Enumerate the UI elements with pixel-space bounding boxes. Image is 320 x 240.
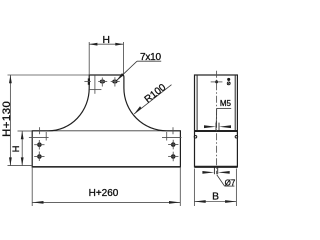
- side view outline: [195, 75, 238, 167]
- corner bump right: [235, 135, 238, 138]
- base top edge (side view, thick): [195, 130, 238, 132]
- dimension H (left): [18, 130, 33, 132]
- slot (edge-on) at left flange: [88, 78, 90, 84]
- base bottom edge (side view, thick): [195, 166, 238, 168]
- base holes left: vertical centerline: [39, 127, 41, 134]
- base plate top edge (full width): [32, 130, 180, 132]
- tiny label O8 (rotated): [227, 78, 230, 81]
- vertical centerline of side view (dash-dot): [216, 71, 218, 174]
- base holes right: vertical centerline: [172, 127, 174, 134]
- front view outline: [32, 75, 180, 167]
- svg-text:H: H: [102, 35, 109, 46]
- O7 hole (bottom, side view): [213, 167, 215, 174]
- dimension H (top): [88, 42, 90, 75]
- hole O7 right-bottom: [171, 154, 176, 159]
- centerline of edge-on slot: [84, 80, 90, 82]
- svg-text:B: B: [212, 192, 219, 203]
- hole O7 right-top: [171, 142, 176, 147]
- M5 end hole centerline left: [29, 137, 49, 139]
- svg-text:H+260: H+260: [89, 188, 119, 199]
- hole O7 left-bottom: [37, 154, 42, 159]
- label R100 with leader arrow: [134, 85, 171, 114]
- svg-text:H: H: [11, 146, 21, 153]
- base plate bottom edge reinforcement: [32, 166, 180, 168]
- M5 end hole centerline right: [162, 137, 182, 139]
- dimension H+260 (bottom): [31, 167, 33, 206]
- inner wall left: [196, 75, 198, 131]
- slot B 7x10: [113, 80, 117, 83]
- svg-text:H+130: H+130: [1, 101, 13, 137]
- hole O7 left-top: [37, 142, 42, 147]
- svg-text:M5: M5: [220, 99, 232, 108]
- inner wall right: [234, 75, 236, 131]
- slot A 7x10: [100, 80, 104, 83]
- top hole (filled) in side view: [215, 80, 218, 83]
- dimension H+130 (left): [8, 74, 90, 76]
- corner bump left: [194, 135, 197, 138]
- M5 hole: [215, 123, 217, 131]
- centerline cross below slots: [94, 75, 96, 94]
- dimension B (bottom of side view): [193, 169, 195, 207]
